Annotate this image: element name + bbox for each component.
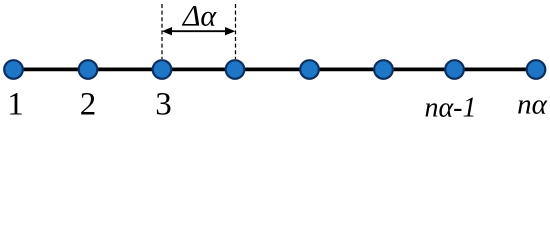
svg-text:nα-1: nα-1 bbox=[424, 93, 476, 121]
svg-text:1: 1 bbox=[7, 87, 24, 121]
svg-text:2: 2 bbox=[80, 87, 97, 121]
svg-text:Δα: Δα bbox=[182, 0, 218, 33]
svg-text:3: 3 bbox=[155, 87, 172, 121]
svg-text:nα: nα bbox=[517, 89, 548, 121]
